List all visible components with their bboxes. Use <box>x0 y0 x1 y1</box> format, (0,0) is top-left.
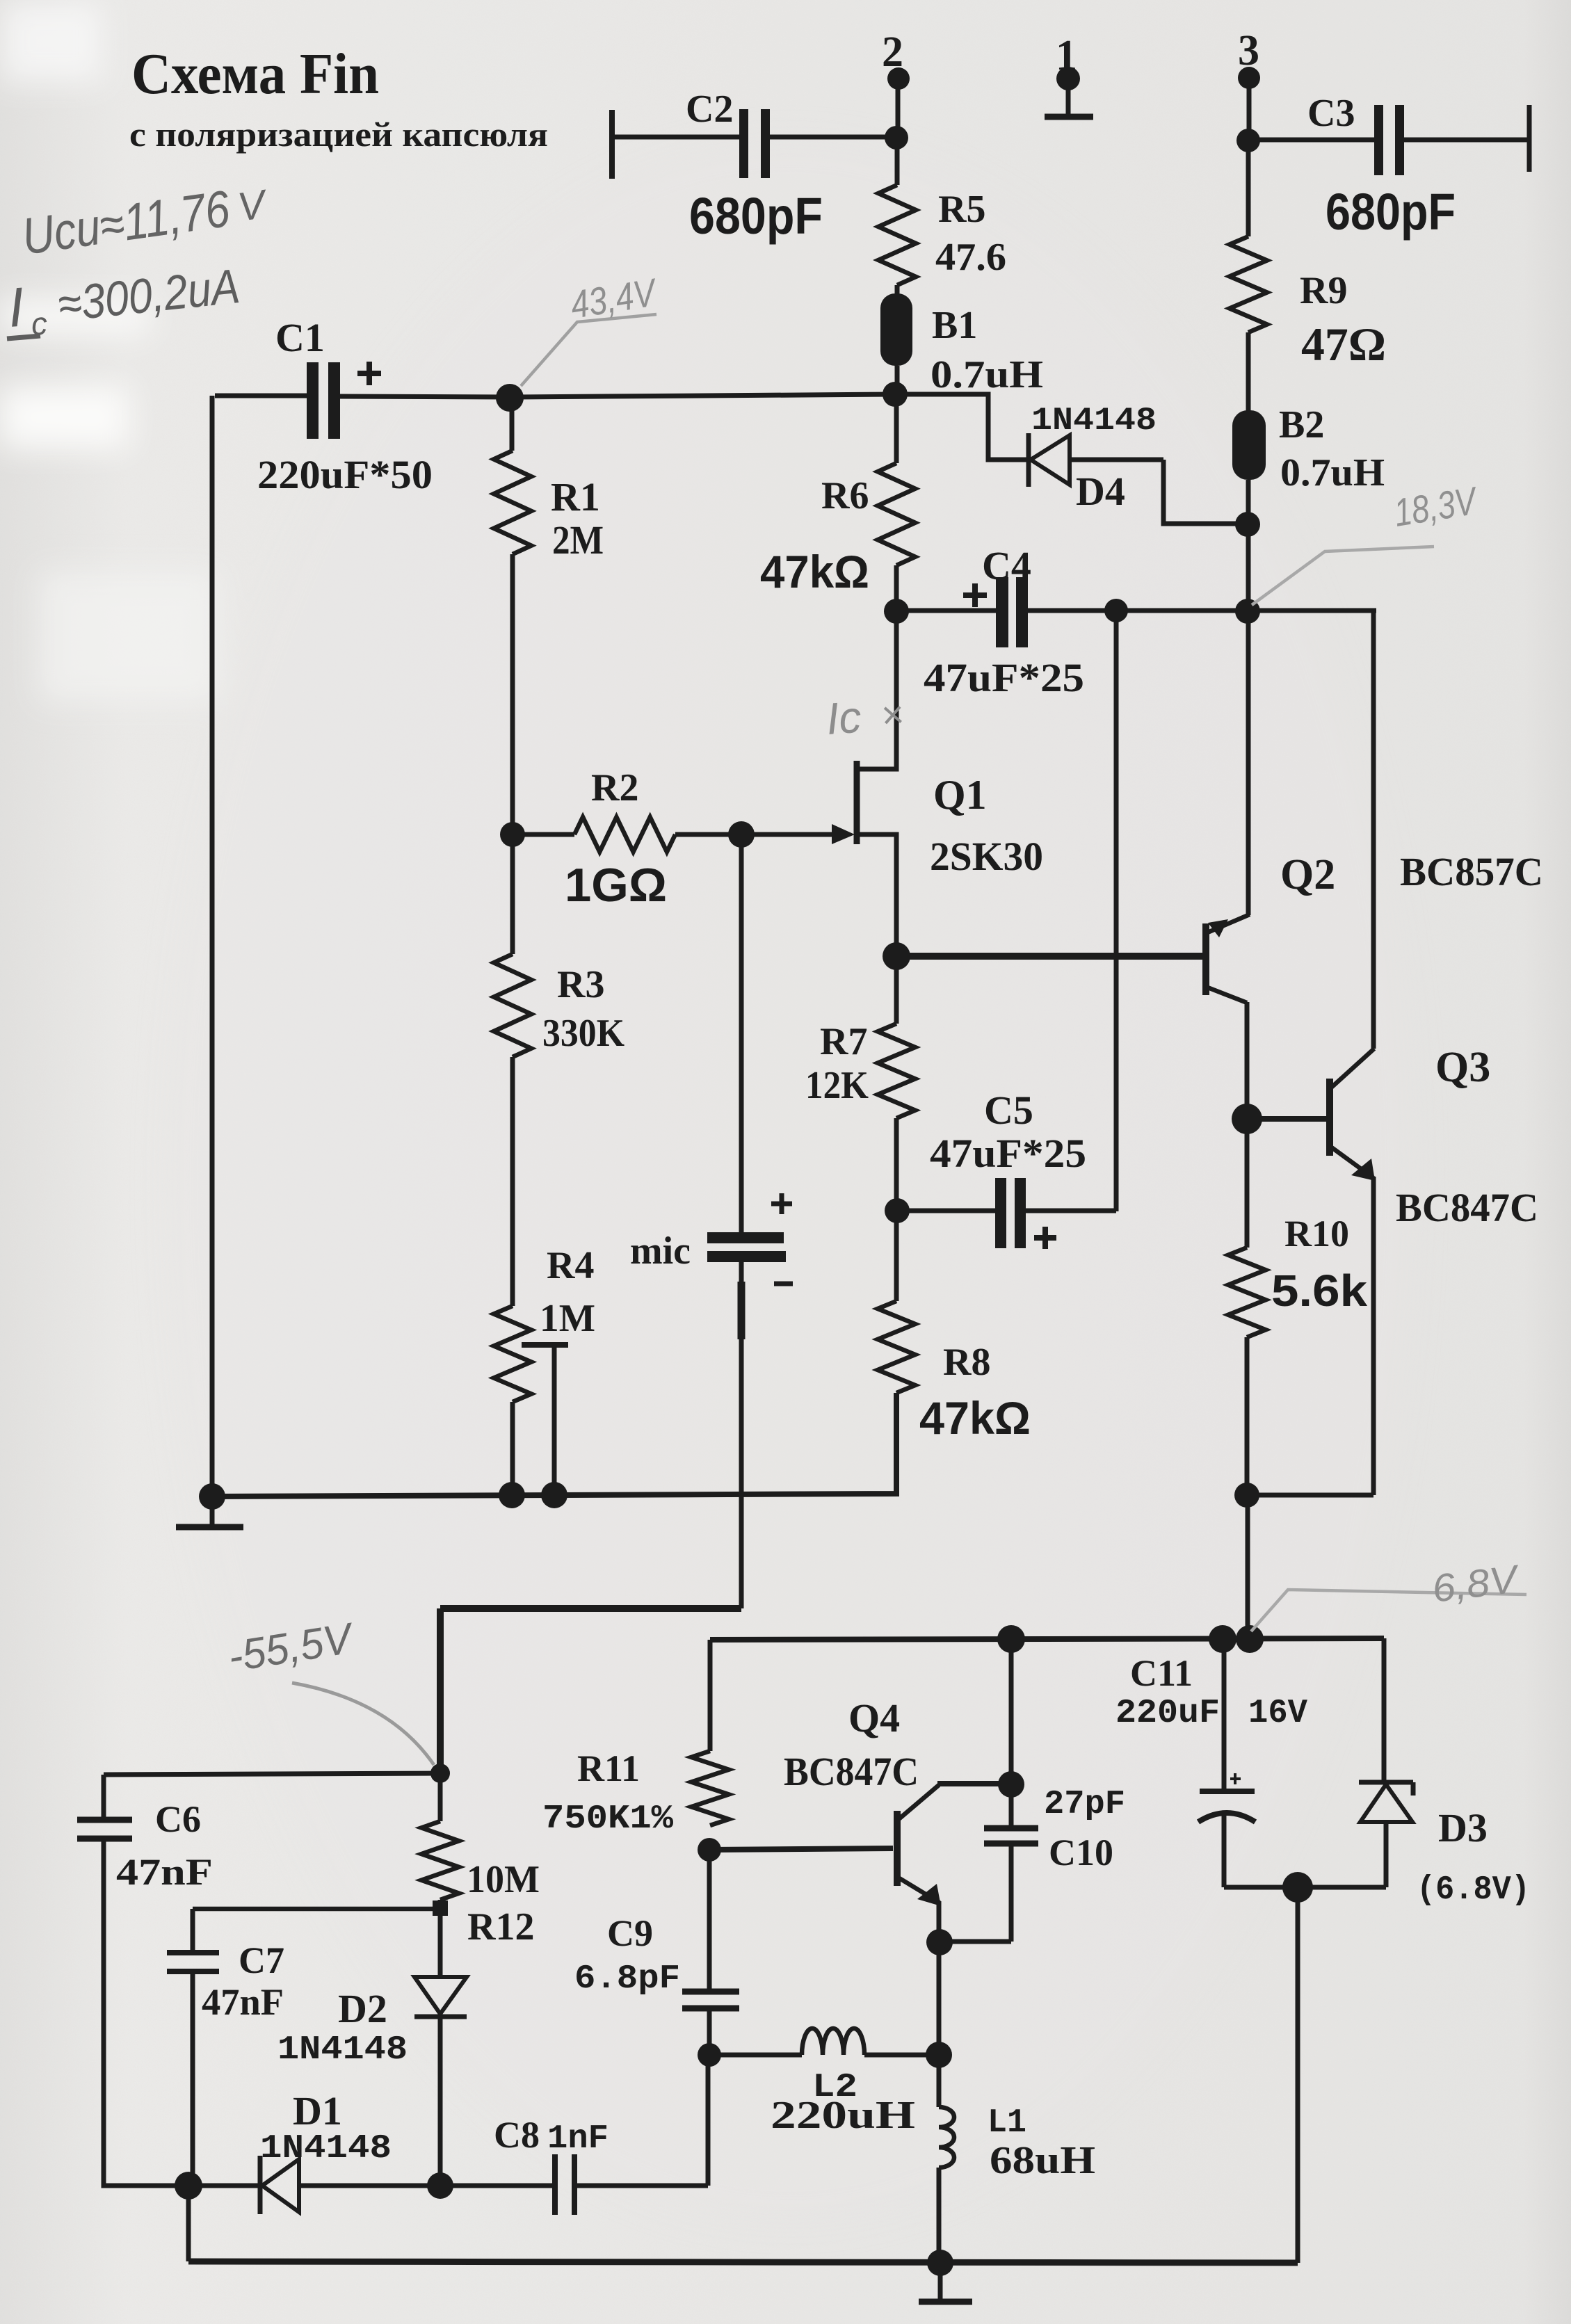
svg-text:C5: C5 <box>984 1088 1033 1133</box>
R12 value 10M <box>467 1858 540 1901</box>
wire node to D1 <box>188 2184 259 2188</box>
svg-text:R6: R6 <box>821 474 869 517</box>
wire pin3 to R9 <box>1246 140 1251 236</box>
capacitor C2 <box>612 109 896 179</box>
wire Q3 node to R10 <box>1245 1119 1250 1248</box>
resistor R5 <box>878 185 916 285</box>
capacitor C4 label <box>982 543 1031 588</box>
node ground bus left <box>199 1483 225 1510</box>
svg-text:2SK30: 2SK30 <box>930 834 1043 879</box>
Q4 collector <box>897 1785 939 1821</box>
wire D4 node to C4 row <box>1246 524 1251 611</box>
svg-text:C10: C10 <box>1049 1832 1113 1873</box>
node 43.4V <box>496 384 524 412</box>
wire Q1 drain <box>857 611 896 769</box>
svg-text:с: с <box>30 305 49 341</box>
wire R9 to B2 <box>1246 332 1251 412</box>
handwritten -55,5V pointer <box>292 1683 434 1765</box>
node -55,5V <box>430 1764 450 1783</box>
svg-text:27pF: 27pF <box>1044 1786 1125 1823</box>
svg-text:C3: C3 <box>1307 92 1355 135</box>
R2 value 1G <box>565 859 667 912</box>
svg-text:6.8pF: 6.8pF <box>574 1960 680 1998</box>
B1 value <box>930 353 1043 396</box>
svg-text:68uH: 68uH <box>990 2139 1095 2182</box>
wire Q4 emitter down <box>937 1901 942 1943</box>
wire node to R7 <box>894 956 899 1024</box>
wire C7 row <box>193 1907 440 1912</box>
resistor R9 <box>1230 236 1267 332</box>
ground symbol left <box>176 1496 243 1527</box>
B2 value <box>1280 451 1385 494</box>
svg-text:1N4148: 1N4148 <box>260 2130 392 2168</box>
resistor R7 <box>878 1024 915 1118</box>
svg-text:2M: 2M <box>552 517 604 563</box>
C8 label <box>494 2114 540 2156</box>
svg-text:R5: R5 <box>938 188 985 231</box>
R6 value 47k <box>760 546 869 597</box>
Q4 base wire <box>709 1848 893 1850</box>
capacitor C3 label <box>1307 92 1355 135</box>
node R10 bottom <box>1234 1483 1259 1508</box>
resistor R12 <box>421 1821 459 1900</box>
D4 label 1N4148 <box>1031 403 1157 439</box>
Q4 label <box>848 1695 900 1741</box>
svg-text:R12: R12 <box>467 1905 534 1948</box>
handwritten 6,8V <box>1430 1556 1523 1611</box>
svg-text:1nF: 1nF <box>547 2120 609 2158</box>
wire R6 top <box>894 394 899 463</box>
Q3 type BC847C <box>1396 1185 1538 1230</box>
node D1 left <box>175 2172 202 2200</box>
C3 value 680pF <box>1326 183 1456 241</box>
wire R12 to D2 <box>438 1900 443 1977</box>
wire R1 to R2 node <box>510 554 515 834</box>
svg-text:1N4148: 1N4148 <box>1031 403 1157 439</box>
wire rail to D3 <box>1382 1638 1387 1782</box>
wire C4 row right <box>1248 608 1376 613</box>
svg-text:0.7uH: 0.7uH <box>930 353 1043 396</box>
L2 value <box>771 2094 915 2137</box>
svg-text:47nF: 47nF <box>202 1981 284 2023</box>
resistor R6 <box>878 463 915 565</box>
node C11-D3 <box>1282 1872 1313 1903</box>
svg-text:D3: D3 <box>1438 1805 1488 1850</box>
R2 label <box>591 766 638 809</box>
svg-text:B1: B1 <box>932 304 977 347</box>
resistor R2 <box>513 817 741 852</box>
node C4 mid <box>1104 599 1128 622</box>
svg-text:B2: B2 <box>1279 403 1324 446</box>
Q3 label <box>1435 1044 1490 1091</box>
svg-text:47kΩ: 47kΩ <box>760 546 869 597</box>
wire C6 top <box>104 1773 440 1818</box>
Q3 base wire <box>1247 1116 1327 1122</box>
node B1-R6 <box>883 382 908 407</box>
wire rail to C10 node <box>1009 1639 1014 1784</box>
mic label <box>630 1229 691 1273</box>
svg-text:R7: R7 <box>820 1020 867 1063</box>
C7 label <box>239 1939 284 1981</box>
capacitor C6 <box>77 1820 132 1839</box>
wire rail to R11 <box>708 1640 713 1751</box>
svg-text:×: × <box>879 692 905 737</box>
svg-text:R3: R3 <box>557 963 604 1006</box>
wire Q2 emitter up <box>1246 611 1251 915</box>
wire R3 to R4 <box>510 1057 515 1306</box>
svg-text:C8: C8 <box>494 2114 540 2156</box>
C9 label <box>607 1912 653 1954</box>
D3 label <box>1438 1805 1488 1850</box>
svg-text:12K: 12K <box>805 1064 869 1107</box>
svg-text:C11: C11 <box>1130 1652 1193 1694</box>
resistor R8 <box>878 1301 915 1393</box>
handwritten -55,5V <box>225 1614 358 1681</box>
wire R4 to bus <box>510 1402 515 1495</box>
Q1 type 2SK30 <box>930 834 1043 879</box>
wire C4 mid down to C5 <box>1114 611 1119 1211</box>
svg-text:Q2: Q2 <box>1280 851 1335 898</box>
C6 label <box>155 1798 201 1840</box>
Q4 emitter <box>897 1877 941 1906</box>
wire R8 to ground bus <box>212 1393 896 1496</box>
svg-text:5.6k: 5.6k <box>1271 1266 1367 1316</box>
svg-text:mic: mic <box>630 1229 691 1273</box>
C1 plus sign <box>357 362 381 385</box>
R3 value <box>542 1012 625 1055</box>
R6 label <box>821 474 869 517</box>
wire D3 node down <box>1296 1887 1300 2263</box>
svg-text:Q1: Q1 <box>933 772 987 818</box>
Q1 gate arrow <box>832 824 855 844</box>
svg-text:330K: 330K <box>542 1012 625 1055</box>
Q1 label <box>933 772 987 818</box>
svg-text:47kΩ: 47kΩ <box>919 1392 1031 1444</box>
Q3 collector <box>1330 1049 1374 1089</box>
B1 label <box>932 304 977 347</box>
svg-text:Iс: Iс <box>825 692 863 744</box>
svg-text:Q4: Q4 <box>848 1695 900 1741</box>
node C10 emitter <box>926 1929 953 1955</box>
svg-text:R8: R8 <box>943 1341 990 1384</box>
svg-text:16V: 16V <box>1248 1695 1307 1732</box>
svg-text:750K1%: 750K1% <box>542 1800 673 1838</box>
node Q4 collector C10 <box>998 1771 1024 1798</box>
svg-text:C9: C9 <box>607 1912 653 1954</box>
node R4 bus <box>499 1482 525 1508</box>
Q1 channel bar <box>854 761 860 844</box>
Q3 emitter <box>1330 1146 1375 1181</box>
svg-text:1N4148: 1N4148 <box>277 2031 408 2069</box>
D4 label <box>1076 469 1125 514</box>
wire C11 to node <box>1224 1885 1298 1890</box>
Q2 label <box>1280 851 1335 898</box>
wire right rail down to Q3 collector <box>1371 611 1376 1049</box>
wire C4 node to line3 <box>1116 608 1248 613</box>
C5 plus sign <box>1034 1227 1056 1249</box>
resistor R10 <box>1228 1248 1266 1337</box>
svg-text:1M: 1M <box>540 1297 595 1340</box>
svg-text:220uH: 220uH <box>771 2094 915 2137</box>
node D4-B2 <box>1235 512 1260 537</box>
ground at pin 1 <box>1045 114 1093 120</box>
subtitle text <box>129 115 548 154</box>
wire B1 to node <box>895 366 900 395</box>
diode D4 <box>1029 433 1163 487</box>
svg-text:220uF*50: 220uF*50 <box>257 452 433 497</box>
handwritten 18,3V pointer <box>1252 547 1434 605</box>
node R2 right <box>728 821 755 848</box>
svg-text:1GΩ: 1GΩ <box>565 859 667 912</box>
node D1-D2-C8 <box>427 2172 453 2199</box>
R11 value <box>542 1800 673 1838</box>
D3 value <box>1417 1871 1530 1909</box>
svg-text:47Ω: 47Ω <box>1301 318 1386 371</box>
svg-text:L1: L1 <box>988 2104 1026 2142</box>
Q2 base bar <box>1202 923 1209 995</box>
Q1 gate wire <box>741 832 835 837</box>
node Q2-Q3-R10 <box>1232 1104 1262 1134</box>
B2 label <box>1279 403 1324 446</box>
svg-text:R10: R10 <box>1284 1213 1349 1254</box>
svg-text:47.6: 47.6 <box>935 236 1006 279</box>
node L2 right <box>926 2042 952 2068</box>
svg-text:R1: R1 <box>551 474 600 519</box>
C5 value <box>930 1131 1086 1176</box>
R7 value <box>805 1064 869 1107</box>
svg-text:R2: R2 <box>591 766 638 809</box>
ground symbol bottom <box>919 2263 972 2302</box>
svg-text:47uF*25: 47uF*25 <box>924 655 1084 700</box>
inductor L2 <box>709 2028 939 2055</box>
R10 value <box>1271 1266 1367 1316</box>
capacitor C1 label <box>275 315 325 360</box>
pin 1 terminal <box>1056 67 1080 115</box>
oscillator top rail <box>710 1638 1384 1640</box>
handwritten note Ucu=11,76V <box>19 179 272 266</box>
capacitor C10 <box>984 1784 1038 1942</box>
svg-text:220uF: 220uF <box>1115 1695 1220 1732</box>
svg-text:C2: C2 <box>686 88 733 131</box>
svg-text:D4: D4 <box>1076 469 1125 514</box>
svg-text:47nF: 47nF <box>116 1851 213 1893</box>
svg-text:BC857C: BC857C <box>1400 849 1543 894</box>
svg-text:680pF: 680pF <box>1326 183 1456 241</box>
wire D4 to line3 <box>1163 460 1248 524</box>
svg-text:R4: R4 <box>547 1244 594 1287</box>
Q3 base bar <box>1326 1079 1333 1156</box>
D2 label <box>338 1986 387 2031</box>
wire R2 node to mic <box>739 834 744 1234</box>
R4 tap bar <box>522 1342 568 1348</box>
C8 value <box>547 2120 609 2158</box>
wire -55V node to R12 <box>438 1773 443 1821</box>
C10 value 27pF <box>1044 1786 1125 1823</box>
wire B1 node to D4 <box>896 394 1027 460</box>
R11 label <box>577 1748 640 1789</box>
capacitor C5 label <box>984 1088 1033 1133</box>
R9 label <box>1300 269 1347 312</box>
wire pin2 to R5 <box>895 138 900 185</box>
svg-text:Схема Fin: Схема Fin <box>131 42 379 106</box>
handwritten 43,4V <box>567 270 661 327</box>
C6 value <box>116 1851 213 1893</box>
diode D1 <box>260 2156 440 2214</box>
node C2-pin2 <box>885 126 908 150</box>
R1 label <box>551 474 600 519</box>
capacitor C11 <box>1198 1639 1255 1887</box>
C4 value <box>924 655 1084 700</box>
resistor R1 <box>494 451 531 554</box>
svg-text:0.7uH: 0.7uH <box>1280 451 1385 494</box>
node C5 left <box>885 1198 910 1223</box>
C1 value <box>257 452 433 497</box>
wire node to R1 <box>510 398 515 451</box>
resistor R11 <box>691 1751 729 1825</box>
R4 label <box>547 1244 594 1287</box>
wire node to R3 <box>510 834 515 954</box>
Q2 emitter <box>1206 914 1250 937</box>
pin 2 label <box>882 29 903 76</box>
capacitor C1 <box>215 362 510 439</box>
node rail R10 line <box>1236 1625 1264 1653</box>
left rail wire <box>210 396 215 1496</box>
wire R6 to C4 node <box>894 565 899 611</box>
wire -55V down <box>437 1608 444 1773</box>
wire mic down <box>739 1262 744 1608</box>
R12 label <box>467 1905 534 1948</box>
L2 label <box>812 2069 857 2106</box>
node R4 tap bus <box>541 1482 567 1508</box>
capacitor C8 <box>555 2055 708 2215</box>
svg-text:10M: 10M <box>467 1858 540 1901</box>
handwritten 6,8V pointer <box>1251 1590 1526 1631</box>
resistor R4 <box>494 1306 531 1402</box>
node C4 row left <box>884 599 909 624</box>
svg-text:с поляризацией капсюля: с поляризацией капсюля <box>129 115 548 154</box>
wire C1 node to B1 node <box>510 394 895 397</box>
D2 value 1N4148 <box>277 2031 408 2069</box>
svg-text:R9: R9 <box>1300 269 1347 312</box>
wire emitter node down <box>937 1942 942 2054</box>
inductor bead B2 <box>1232 410 1266 480</box>
R7 label <box>820 1020 867 1063</box>
R4 tap wire <box>552 1345 557 1495</box>
Q2 type BC857C <box>1400 849 1543 894</box>
D1 label <box>293 2088 342 2133</box>
wire C10 to emitter <box>939 1939 1011 1944</box>
node R11-Q4 base <box>698 1838 721 1862</box>
svg-text:47uF*25: 47uF*25 <box>930 1131 1086 1176</box>
Q4 type BC847C <box>784 1749 919 1794</box>
Q4 collector wire <box>937 1781 1011 1786</box>
handwritten Ic x <box>825 692 905 744</box>
title text <box>131 42 379 106</box>
pin 2 terminal <box>887 67 910 138</box>
wire C8 up <box>440 2184 555 2188</box>
R3 label <box>557 963 604 1006</box>
handwritten 18,3V <box>1391 478 1481 535</box>
svg-text:C6: C6 <box>155 1798 201 1840</box>
svg-text:680pF: 680pF <box>689 187 823 245</box>
D1 value 1N4148 <box>260 2130 392 2168</box>
node R12-C7 <box>433 1901 448 1916</box>
zener diode D3 <box>1298 1782 1413 1887</box>
node bottom ground <box>927 2250 953 2276</box>
C11 voltage <box>1248 1695 1307 1732</box>
capacitor C4 plus <box>963 583 987 607</box>
L1 value <box>990 2139 1095 2182</box>
node C11 top <box>1209 1625 1236 1653</box>
wire R10 node down to osc rail <box>1246 1495 1250 1639</box>
wire Q2 collector down <box>1245 1002 1250 1119</box>
node C9-C8-L2 <box>698 2043 721 2067</box>
wire R7 to C5 node <box>894 1118 899 1210</box>
Q2 collector <box>1206 987 1247 1003</box>
wire Q3 emitter to R10 bottom <box>1247 1493 1373 1498</box>
capacitor C9 <box>682 1992 739 2056</box>
C11 label <box>1130 1652 1193 1694</box>
R5 value <box>935 236 1006 279</box>
R10 label <box>1284 1213 1349 1254</box>
pin 1 label <box>1056 32 1077 79</box>
capacitor C4 <box>896 577 1115 647</box>
svg-text:C7: C7 <box>239 1939 284 1981</box>
handwritten 43,4V pointer <box>521 314 656 386</box>
wire C6 down <box>104 1839 188 2186</box>
bottom rail <box>188 2261 1298 2263</box>
wire R10 to node <box>1245 1337 1250 1495</box>
wire R5 to B1 <box>895 285 900 295</box>
svg-text:BC847C: BC847C <box>784 1749 919 1794</box>
svg-text:BC847C: BC847C <box>1396 1185 1538 1230</box>
pin 3 label <box>1238 27 1259 74</box>
wire B2 to node <box>1246 480 1251 524</box>
wire C5 node to R8 <box>894 1211 899 1301</box>
pin 3 terminal <box>1238 67 1260 141</box>
handwritten note Ic=300,2uA <box>6 259 242 342</box>
wire mic line to -55V corner <box>440 1605 741 1612</box>
microphone capsule <box>707 1232 786 1262</box>
wire Q3 emitter down <box>1371 1177 1376 1495</box>
node C10 top <box>997 1625 1025 1653</box>
svg-text:D1: D1 <box>293 2088 342 2133</box>
resistor R3 <box>494 954 531 1057</box>
C7 value <box>202 1981 284 2023</box>
mic minus <box>774 1282 793 1286</box>
node C3-pin3 <box>1236 129 1260 152</box>
node R1-R2-R3 <box>500 822 525 847</box>
C9 value <box>574 1960 680 1998</box>
wire D1 node down <box>186 2186 191 2261</box>
svg-text:Q3: Q3 <box>1435 1044 1490 1091</box>
R1 value <box>552 517 604 563</box>
R9 value <box>1301 318 1386 371</box>
wire Q1 source to Q2 base <box>896 953 1203 960</box>
inductor L1 <box>939 2055 954 2263</box>
inductor bead B1 <box>880 293 912 366</box>
svg-text:C1: C1 <box>275 315 325 360</box>
C2 value 680pF <box>689 187 823 245</box>
capacitor C7 <box>167 1909 219 2186</box>
capacitor C5 <box>897 1178 1116 1248</box>
R5 label <box>938 188 985 231</box>
wire Q1 source <box>857 834 896 955</box>
node C4 row line3 <box>1235 599 1260 624</box>
svg-text:(6.8V): (6.8V) <box>1417 1871 1530 1909</box>
svg-text:D2: D2 <box>338 1986 387 2031</box>
wire node to C9 <box>707 1850 712 1990</box>
